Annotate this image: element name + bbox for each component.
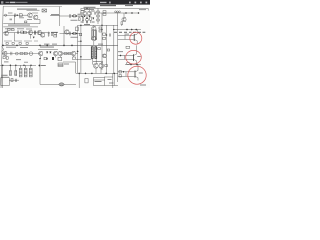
text row [8,24,30,27]
resistor R10 [97,19,99,21]
capacitor C7 hatched [19,68,22,77]
resistor R27 [11,78,13,81]
wire mid [60,15,81,17]
diode D3 [46,52,48,53]
node L [15,65,16,66]
label left of Q20 [125,33,130,36]
connector circle [15,52,18,55]
text specks mid-bus [44,43,50,46]
node C2b [76,33,77,34]
resistor R1 [19,14,22,17]
text specks center cluster [81,9,84,12]
capacitor C2 [70,14,71,18]
resistor R32 [86,19,88,21]
transistor Q18 [93,63,98,68]
node A [17,15,18,16]
node B4 [81,16,82,17]
resistor R22 hatched [15,71,17,76]
transistor Q15 [53,51,57,55]
transistor Q13 [29,52,33,56]
relay RY1 hatched [58,63,63,67]
resistor R4 [90,17,92,20]
diode D6 [33,37,34,38]
resistor R9 [97,15,99,17]
inductor L1 [115,11,121,12]
resistor R45 [73,32,75,34]
text speck pair label [93,60,101,63]
zener D2 [48,32,50,37]
wire input2 [50,15,60,17]
resistor R21 hatched [9,71,11,76]
boxed part X2 [24,31,27,34]
emitter resistor RE1 (bold) [91,47,96,59]
transistor Q14 [38,51,42,55]
resistor R12 [54,32,57,34]
border left [1,6,3,88]
text labels top [17,9,37,10]
text specks [4,61,9,64]
resistor R44 [12,29,15,31]
rail x117.7 [117,13,119,82]
resistor R14 [76,27,79,31]
text speck row [20,46,28,49]
node B1 [84,16,85,17]
wire [122,13,124,26]
node S1 [39,58,40,59]
rail x102 [101,13,103,70]
wire x79.2 drop [78,73,80,88]
transistor Q2 [33,15,38,20]
node S2 [46,58,47,59]
capacitor C1 [15,14,16,18]
fuse F1 [59,83,64,86]
node X1 [130,64,131,65]
node P [91,73,92,74]
node F [138,12,139,13]
node T1 [77,51,78,52]
resistor R33 [25,21,27,23]
node R [114,73,115,74]
toolbar [0,0,150,5]
text label U1 [2,74,8,77]
diode D5 [93,18,94,19]
node K [10,65,11,66]
label Q22 [139,72,143,75]
wire bus y25.3 [78,24,118,26]
text speck row2 right [71,36,78,39]
wire y64.5 above Q22 [125,64,141,66]
capacitor C17 [70,32,71,36]
text under wire y17 [19,16,24,19]
diode D1 [86,22,88,24]
wire row2 drop [14,33,16,41]
node rail1 [101,29,102,30]
diode D4 [50,52,52,53]
text speck [78,13,81,16]
resistor R34 [44,57,47,60]
border top [3,5,62,7]
capacitor C8 hatched [24,68,27,77]
node bus1 [2,45,3,46]
resistor R16 [99,30,102,32]
resistor R35 [58,57,62,60]
label left of Q21 [118,50,123,53]
resistor R36 [73,57,76,60]
node B [72,15,73,16]
wire stub down [29,35,31,39]
wire collector bus y29.5 [115,29,142,31]
capacitor C4 [18,31,19,35]
wire row y41 dashes [4,40,38,42]
transistor Q22 [135,65,138,81]
wire cluster verticals [83,8,91,23]
resistor R18 [24,52,27,54]
text speck [26,28,32,31]
label RY1 [64,63,69,66]
wire row2 [3,32,50,34]
text speck row2 [51,31,58,34]
resistor R15 [99,27,102,29]
node L2 [23,65,24,66]
transistor Q1 [28,13,33,18]
node G [80,25,81,26]
node B3 [86,8,87,9]
output stage wires to Q22 [118,72,135,77]
capacitor C9 [16,79,17,82]
wire y62 [63,61,76,63]
transistor Q7b [37,30,41,34]
wire x75.5 drop [75,62,77,73]
capacitor C13 [94,12,97,15]
resistor RE2 hatched [92,30,94,40]
wire stubs down [3,65,31,88]
wire x40 vertical [39,60,41,66]
transistor Q6 [4,31,8,35]
node C [76,15,77,16]
red annotation circle 3 [128,66,146,84]
node O [85,73,86,74]
transistor Q21 [133,45,136,63]
connector CN2 [42,9,47,12]
resistor R39 [105,65,108,67]
IC U1 bottom left [1,78,9,86]
resistor R26 hatched [29,68,32,77]
node I [80,41,81,42]
wire top input [3,14,27,16]
rail x80.9 [80,25,82,73]
node X3 [123,71,124,72]
resistor R2 [73,15,75,17]
wire y41.2 stub [78,40,81,42]
wire y59.6 [76,59,91,61]
node B2 [89,16,90,17]
wire left jog [2,47,5,52]
transistor Q5 [122,17,126,21]
wire supply y65.3 [0,64,36,66]
transistor Q8 [40,33,44,37]
node W1 [120,55,121,56]
resistor R20 [68,52,71,54]
rail x77.6 [77,25,79,73]
wire vertical [14,15,16,24]
wire bus y45.4 [2,44,118,46]
capacitor C14 [110,34,111,37]
wire x64 vertical [63,26,65,45]
wire y80 [9,79,19,81]
connector J1 [5,14,7,16]
text label block [84,7,96,8]
component row y43.5 [6,43,8,45]
node rail2 [106,34,107,35]
transistor Q19 [99,63,104,68]
node N [79,73,80,74]
node bus2 [16,45,17,46]
wire x114.2 drop [113,73,115,85]
resistor RE3 hatched [95,30,97,40]
output stage wires to Q20 [118,35,134,39]
node bus3 [39,45,40,46]
rail x106.5 [106,25,108,73]
red annotation circle 1 [130,32,142,44]
node bus6 [71,45,72,46]
node E [131,12,132,13]
node X2 [136,64,137,65]
transistor Q9 [65,30,69,34]
transistor Q23 [102,54,106,58]
node V1 [126,29,127,30]
text row above Q20 [114,31,117,34]
wire y27 [3,26,38,28]
resistor R11 [21,31,24,33]
wire top right bus [96,8,148,10]
node rail3 [113,29,114,30]
output stage wires to Q21 [118,56,133,60]
wire [32,13,40,24]
rail x113.8 [113,25,115,73]
resistor R40 [79,18,81,21]
resistor R3 [82,17,84,20]
wire stubs from driver row [41,56,74,59]
resistor R28 [85,79,88,83]
resistor R6 [103,13,106,15]
wire bus y73.4 [76,72,118,74]
text specks bottom right [108,78,112,81]
wire bus y49.5 [38,49,58,51]
text row2 [5,27,14,30]
capacitor C6 [11,52,12,55]
wire Q10 chain [93,25,95,45]
resistor R38 [107,49,110,51]
capacitor C11 [10,18,13,21]
node Q [106,73,107,74]
transistor Q17 [71,51,75,55]
transistor Q20 [134,30,137,44]
capacitor C16 [34,31,35,35]
relay box K1 [94,78,105,86]
node V3 [136,29,137,30]
rail x112.8 lower [104,73,113,88]
wire right bus y13 [98,12,139,14]
label Q21 [137,55,140,58]
page number text [140,85,146,86]
component cluster end of driver row [3,57,5,59]
transistor Q11 [92,36,96,40]
red annotation circle 2 [126,50,142,64]
resistor R37 [98,48,101,50]
node V2 [131,29,132,30]
wire bus y23.7 [3,23,40,25]
resistor R17 [20,52,23,54]
wire y53.5 right [63,53,78,55]
capacitor C12 (bold) [52,57,54,60]
resistor R41 [103,33,106,35]
resistor R19 [64,52,67,54]
node L3 [30,65,31,66]
rail x98 [97,8,99,24]
resistor R31 [127,63,130,65]
transistor Q3 [82,11,86,15]
wire y53.6 [2,53,40,55]
resistor R43 [8,29,11,31]
node J [2,65,3,66]
transistor Q7 [28,30,32,34]
capacitor C10 [80,12,81,16]
wire pair drops [92,58,101,73]
node M with label [39,65,40,66]
node T2 [80,56,81,57]
wire y85.5 [105,85,118,87]
transistor Q4 [87,11,91,15]
resistor R7 [121,22,123,25]
resistor R46 [80,33,82,36]
transistor Q12 [3,51,7,55]
transistor Q16 [58,51,62,55]
wire vertical x59.5 [59,7,61,26]
node D [125,12,126,13]
capacitor C3 [86,17,88,20]
resistor R5 [103,11,106,13]
resistor R30 [126,46,130,48]
text row mid [40,46,54,49]
component cluster left of Q22 [119,71,121,73]
node H [101,25,102,26]
wire row2 right [60,33,81,35]
capacitor C5 [51,32,52,36]
node bus4 [47,45,48,46]
bottom wire y84.4 [40,66,76,84]
node T3 [101,61,102,62]
wire stub center [78,8,96,16]
resistor R42 [103,37,106,39]
node C2a [72,33,73,34]
resistor R13 [54,35,57,37]
resistor R8 [97,11,99,13]
transistor Q10 [92,26,96,30]
node bus5 [63,45,64,46]
